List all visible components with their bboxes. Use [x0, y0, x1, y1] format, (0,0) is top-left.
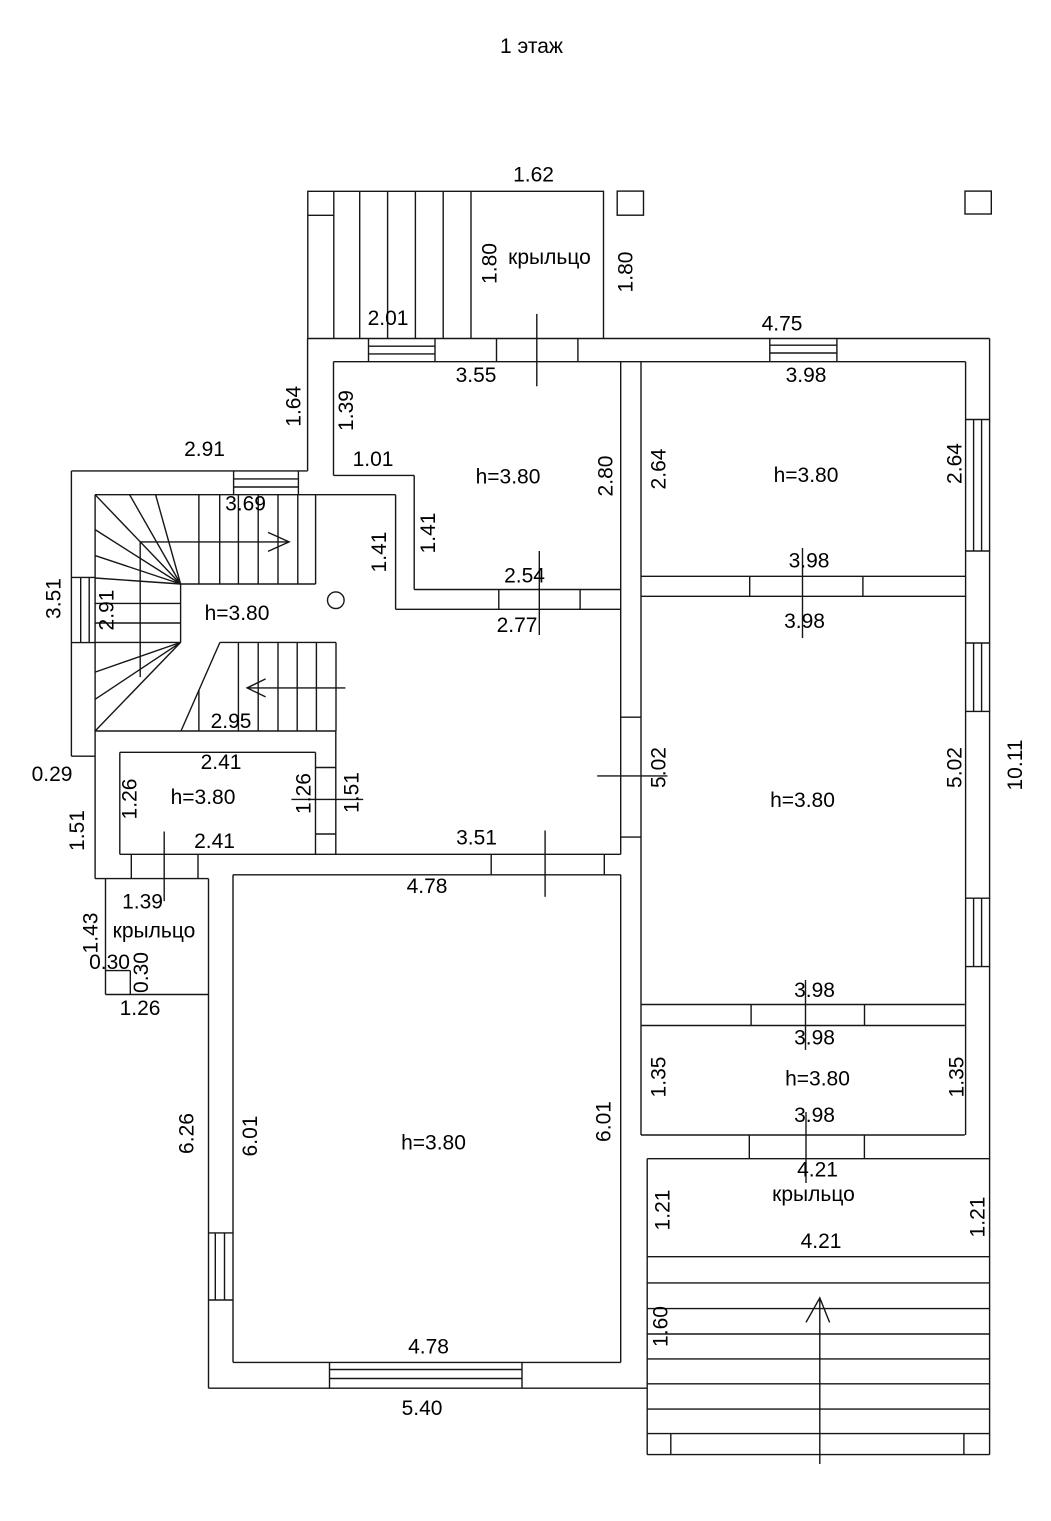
- svg-text:h=3.80: h=3.80: [401, 1132, 466, 1155]
- svg-text:1.35: 1.35: [648, 1057, 671, 1098]
- dim line 3.98-3.98: [802, 548, 804, 638]
- east band west face upper: [620, 362, 622, 855]
- small west room hall-side wall: [335, 731, 337, 854]
- svg-text:1.21: 1.21: [967, 1197, 990, 1238]
- svg-text:3.98: 3.98: [794, 979, 835, 1002]
- svg-text:1.26: 1.26: [293, 773, 316, 814]
- dim line 3.98-3.98 lower: [805, 980, 807, 1050]
- stair lower run top edge: [220, 641, 336, 643]
- svg-text:3.55: 3.55: [456, 364, 497, 387]
- svg-text:4.75: 4.75: [762, 313, 803, 336]
- right exterior wall outer face: [989, 339, 991, 1455]
- svg-text:крыльцо: крыльцо: [772, 1183, 855, 1206]
- left exterior wall outer face: [70, 471, 72, 756]
- top porch outline: [308, 191, 604, 338]
- hall south wall hall face: [120, 853, 621, 855]
- window in top wall left (entry): [368, 339, 370, 362]
- left porch bottom edge: [106, 994, 209, 996]
- svg-text:1.80: 1.80: [615, 252, 638, 293]
- svg-text:1.41: 1.41: [368, 532, 391, 573]
- stair upper run right edge: [315, 495, 317, 584]
- svg-text:10.11: 10.11: [1004, 740, 1027, 791]
- left exterior wall jog: [71, 755, 95, 757]
- svg-text:2.80: 2.80: [595, 456, 618, 497]
- big room bottom inner wall: [233, 1361, 621, 1363]
- svg-text:1.21: 1.21: [652, 1190, 675, 1231]
- hall north wall room face: [414, 589, 621, 591]
- stair middle run inner edge: [180, 584, 182, 642]
- left porch right edge / big room outer west wall: [208, 879, 210, 1389]
- svg-text:1.62: 1.62: [513, 164, 554, 187]
- svg-text:0.29: 0.29: [32, 763, 73, 786]
- window in top wall right (4.75 side): [769, 339, 771, 362]
- top porch landing sub-line: [308, 214, 334, 216]
- svg-text:0.30: 0.30: [89, 951, 130, 974]
- big room bottom outer wall: [209, 1387, 648, 1389]
- stair upper run bottom edge: [181, 583, 316, 585]
- svg-text:3.51: 3.51: [43, 578, 66, 619]
- svg-text:1.35: 1.35: [946, 1057, 969, 1098]
- dim line 2.54/2.77: [538, 551, 540, 635]
- column circle in hall: [328, 592, 345, 609]
- small right room bottom wall lower face / porch top: [647, 1158, 989, 1160]
- window right wall middle-2: [966, 897, 990, 899]
- dim line 1.26/1.51 tick: [291, 798, 363, 800]
- svg-text:1.39: 1.39: [122, 891, 163, 914]
- svg-text:1 этаж: 1 этаж: [500, 35, 563, 58]
- small west room east door jambs: [316, 767, 336, 769]
- window big room west wall: [209, 1232, 234, 1234]
- svg-text:1.26: 1.26: [119, 779, 142, 820]
- stair down arrow: [247, 679, 345, 697]
- hall south door jambs: [490, 854, 492, 875]
- svg-text:h=3.80: h=3.80: [774, 464, 839, 487]
- svg-text:крыльцо: крыльцо: [113, 920, 196, 943]
- wall 1.39 (vestibule left): [333, 362, 335, 476]
- door jambs small room bottom: [748, 1135, 750, 1159]
- front door jambs in top wall: [496, 339, 498, 362]
- left exterior wall inner face / stair left edge: [94, 495, 96, 879]
- svg-text:2.54: 2.54: [504, 565, 545, 588]
- bottom porch left edge: [646, 1159, 648, 1455]
- stair middle run treads: [95, 602, 181, 604]
- small west room right edge: [315, 752, 317, 854]
- east band west face lower: [620, 875, 622, 1363]
- wall between top-right and middle room upper face: [641, 575, 966, 577]
- svg-text:2.01: 2.01: [368, 307, 409, 330]
- hall north wall hall face: [396, 608, 621, 610]
- svg-text:5.02: 5.02: [648, 747, 671, 788]
- svg-text:4.78: 4.78: [408, 1336, 449, 1359]
- svg-text:4.21: 4.21: [797, 1159, 838, 1182]
- middle room bottom wall lower face: [641, 1025, 965, 1027]
- dim line 5.02 tick: [597, 775, 667, 777]
- svg-text:1.80: 1.80: [479, 243, 502, 284]
- svg-text:2.64: 2.64: [944, 443, 967, 484]
- svg-text:3.98: 3.98: [789, 550, 830, 573]
- window in left wall: [71, 576, 95, 578]
- big room west inner wall: [232, 875, 234, 1363]
- middle room bottom wall upper face: [641, 1004, 965, 1006]
- stair lower run right edge: [335, 642, 337, 731]
- svg-text:2.41: 2.41: [194, 830, 235, 853]
- top porch step treads: [333, 191, 335, 338]
- bottom porch pillar dividers: [670, 1434, 672, 1455]
- svg-text:3.51: 3.51: [456, 827, 497, 850]
- svg-text:3.98: 3.98: [786, 364, 827, 387]
- top-left exterior wall outer face: [71, 470, 307, 472]
- top exterior wall outer face: [308, 338, 990, 340]
- stair middle run bottom tread: [95, 641, 181, 643]
- svg-text:3.98: 3.98: [784, 610, 825, 633]
- right exterior wall inner face: [965, 362, 967, 1135]
- svg-text:1.64: 1.64: [283, 386, 306, 427]
- left porch left edge: [105, 879, 107, 995]
- svg-text:1.51: 1.51: [66, 810, 89, 851]
- stair lower run treads: [237, 642, 239, 731]
- dim line 3.51/4.78: [544, 831, 546, 897]
- left porch door dim line 1.39: [163, 832, 165, 902]
- svg-text:3.69: 3.69: [225, 493, 266, 516]
- bottom porch arrow: [806, 1298, 830, 1464]
- wall 1.41 hall side: [395, 495, 397, 610]
- svg-text:1.43: 1.43: [80, 913, 103, 954]
- svg-text:2.77: 2.77: [497, 614, 538, 637]
- svg-text:6.01: 6.01: [593, 1101, 616, 1142]
- left porch 0.30 step square: [129, 971, 131, 995]
- svg-text:h=3.80: h=3.80: [785, 1068, 850, 1091]
- stair upper winder fan: [95, 495, 181, 584]
- svg-text:0.30: 0.30: [130, 952, 153, 993]
- svg-text:6.26: 6.26: [176, 1113, 199, 1154]
- left porch top edge: [95, 878, 208, 880]
- svg-text:h=3.80: h=3.80: [171, 786, 236, 809]
- svg-text:2.64: 2.64: [648, 448, 671, 489]
- stair up arrow: [140, 532, 289, 677]
- svg-text:2.41: 2.41: [201, 751, 242, 774]
- svg-text:1.51: 1.51: [341, 772, 364, 813]
- svg-text:1.39: 1.39: [335, 390, 358, 431]
- svg-text:1.60: 1.60: [650, 1306, 673, 1347]
- svg-text:5.02: 5.02: [944, 747, 967, 788]
- small right room bottom wall upper face: [641, 1134, 965, 1136]
- wall between top-right and middle room lower face: [641, 595, 966, 597]
- svg-text:2.91: 2.91: [184, 438, 225, 461]
- bottom porch step lines: [647, 1256, 989, 1258]
- top-left exterior wall inner face: [95, 494, 396, 496]
- stair lower run bottom edge: [95, 730, 336, 732]
- hall north door jambs: [498, 590, 500, 610]
- top exterior wall inner face: [334, 361, 966, 363]
- window in top-left wall (2.91 side): [233, 471, 235, 495]
- porch-left wall 1.64: [307, 339, 309, 471]
- svg-text:2.95: 2.95: [211, 710, 252, 733]
- left porch door jambs: [130, 854, 132, 878]
- dim line 3.98-4.21: [805, 1112, 807, 1183]
- window right wall middle-1: [966, 642, 990, 644]
- stair lower winder fan: [95, 642, 181, 731]
- svg-text:3.98: 3.98: [794, 1027, 835, 1050]
- wall 1.41 room side: [413, 475, 415, 589]
- svg-text:крыльцо: крыльцо: [508, 246, 591, 269]
- window big room bottom wall: [329, 1362, 331, 1388]
- pillar square top-right: [965, 191, 991, 214]
- svg-text:1.26: 1.26: [120, 997, 161, 1020]
- svg-text:4.78: 4.78: [407, 875, 448, 898]
- hall south wall room face: [233, 874, 621, 876]
- svg-text:1.41: 1.41: [417, 513, 440, 554]
- door jambs middle room bottom: [750, 1005, 752, 1026]
- window right wall upper: [966, 419, 990, 421]
- svg-text:h=3.80: h=3.80: [476, 466, 541, 489]
- svg-text:1.01: 1.01: [353, 448, 394, 471]
- small west room top edge: [120, 751, 316, 753]
- stair upper run treads: [198, 495, 200, 584]
- svg-text:3.98: 3.98: [794, 1104, 835, 1127]
- stair lower run clipped tread: [198, 690, 200, 731]
- pillar square top-left: [617, 191, 643, 215]
- svg-text:h=3.80: h=3.80: [205, 602, 270, 625]
- svg-text:4.21: 4.21: [801, 1230, 842, 1253]
- east band door jambs: [621, 716, 641, 718]
- small west room left edge: [119, 752, 121, 854]
- svg-text:2.91: 2.91: [96, 590, 119, 631]
- svg-text:h=3.80: h=3.80: [770, 789, 835, 812]
- door jambs between right rooms: [749, 576, 751, 596]
- east band east face: [640, 362, 642, 1135]
- front door leaf line: [536, 314, 538, 386]
- wall 1.01 (vestibule bottom): [334, 474, 415, 476]
- svg-text:5.40: 5.40: [402, 1397, 443, 1420]
- svg-text:6.01: 6.01: [239, 1116, 262, 1157]
- stair lower run slanted tread: [181, 642, 220, 731]
